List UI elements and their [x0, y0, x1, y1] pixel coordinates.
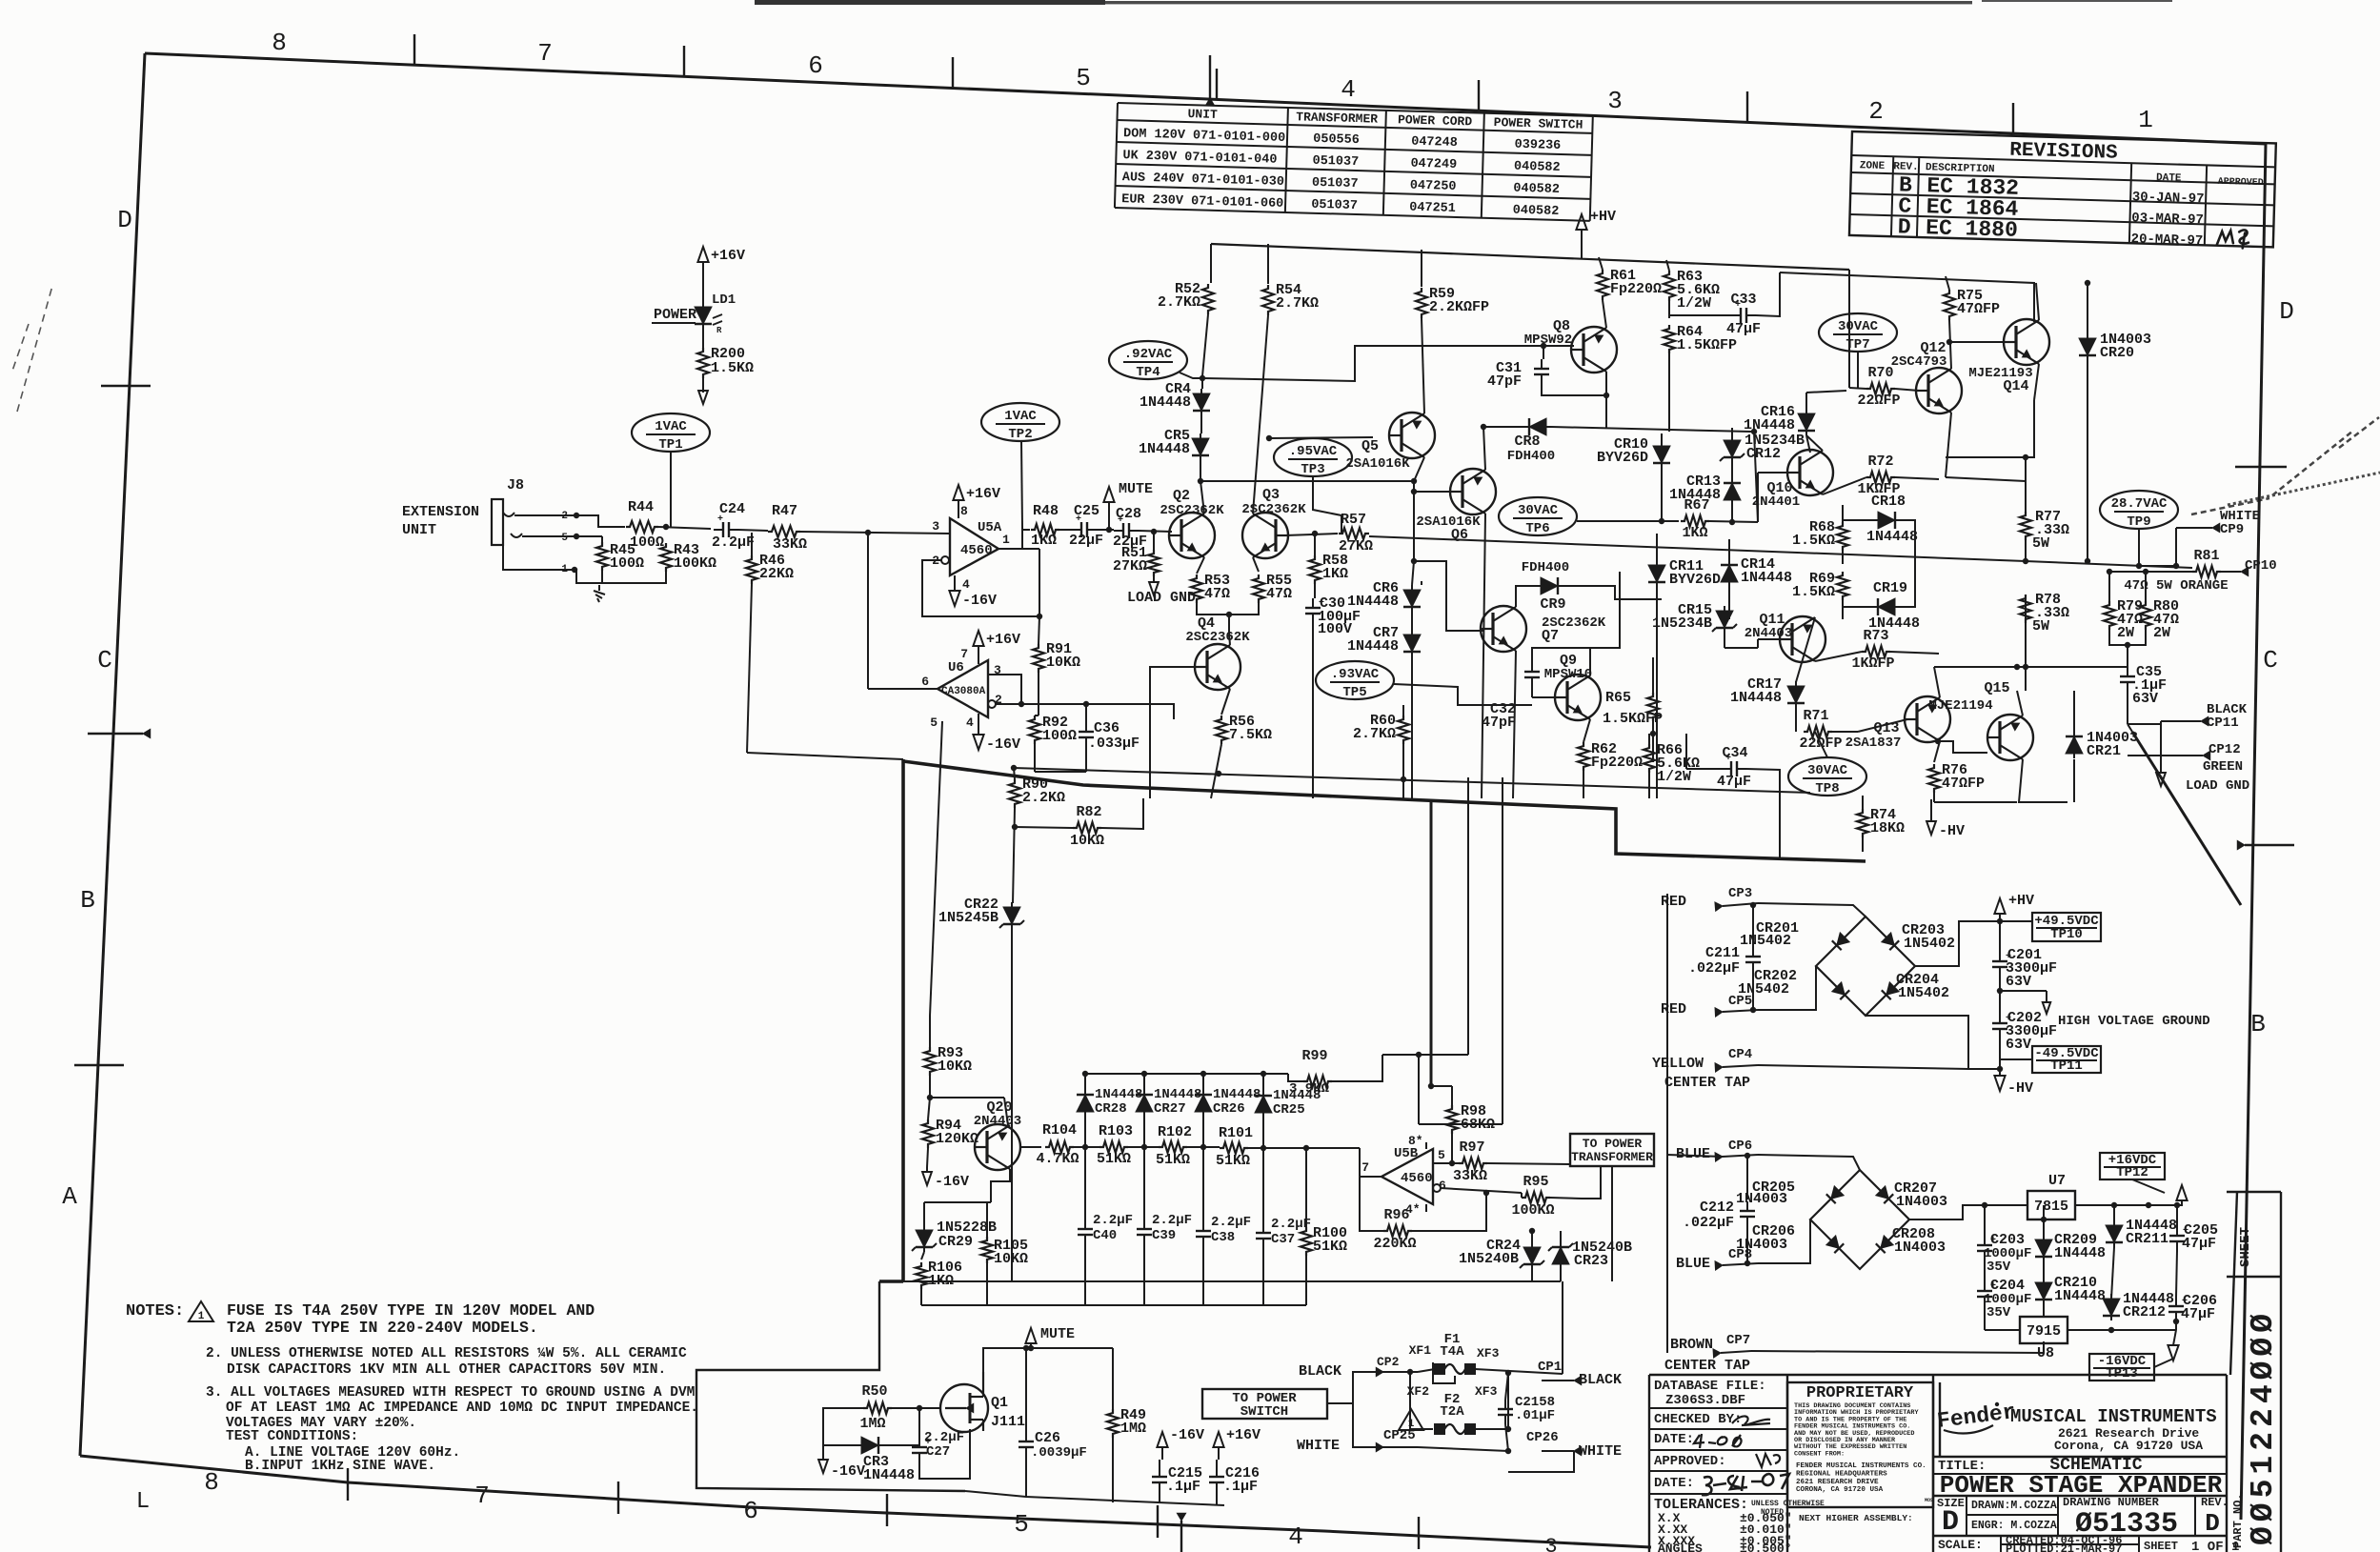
wire	[1011, 929, 1013, 1281]
transistor Q1 J111 JFET	[940, 1384, 988, 1432]
svg-text:C38: C38	[1211, 1230, 1235, 1245]
svg-text:1N5402: 1N5402	[1740, 933, 1791, 949]
wire	[1746, 769, 1780, 798]
wire	[1084, 1147, 1086, 1219]
svg-text:CR27: CR27	[1154, 1101, 1186, 1117]
svg-text:D: D	[1942, 1506, 1959, 1539]
svg-text:C37: C37	[1271, 1232, 1295, 1247]
svg-text:1N5240B: 1N5240B	[1459, 1251, 1519, 1267]
op-amp U5B 4560	[1382, 1149, 1433, 1204]
svg-text:2621 RESEARCH DRIVE: 2621 RESEARCH DRIVE	[1796, 1479, 1879, 1486]
svg-text:D: D	[1897, 214, 1911, 239]
svg-text:BYV26D: BYV26D	[1669, 572, 1721, 588]
svg-text:051037: 051037	[1312, 154, 1359, 170]
op-amp U6 CA3080A	[938, 660, 988, 717]
wire	[2127, 692, 2128, 724]
wire	[576, 535, 602, 537]
svg-text:1N4448: 1N4448	[1140, 394, 1191, 411]
svg-text:22KΩ: 22KΩ	[759, 566, 794, 582]
wire	[1796, 617, 1815, 682]
svg-text:220KΩ: 220KΩ	[1373, 1236, 1416, 1252]
power -16V CR3	[822, 1445, 824, 1460]
transistor Q11 2N4403	[1780, 616, 1825, 662]
svg-text:2N4401: 2N4401	[1752, 494, 1800, 510]
svg-text:22μF: 22μF	[1069, 533, 1103, 549]
svg-text:047250: 047250	[1410, 179, 1457, 194]
power +16V source arrow	[2176, 1185, 2187, 1200]
svg-text:D: D	[2205, 1509, 2220, 1538]
svg-text:WHITE: WHITE	[1579, 1443, 1622, 1460]
wire Q14 collector	[2036, 283, 2039, 320]
wire	[823, 1444, 857, 1446]
revisions table	[1849, 131, 2276, 251]
wire	[670, 452, 672, 527]
svg-text:BLACK: BLACK	[1299, 1363, 1341, 1380]
svg-text:Q15: Q15	[1984, 680, 2009, 696]
power -16V U5A	[954, 577, 956, 591]
wire	[1305, 1148, 1307, 1227]
svg-text:20-MAR-97: 20-MAR-97	[2130, 232, 2203, 249]
svg-text:2.2μF: 2.2μF	[712, 534, 755, 551]
power +HV top	[1581, 229, 1583, 259]
svg-text:1N4003: 1N4003	[1894, 1240, 1946, 1256]
wire	[1648, 773, 1650, 798]
svg-text:27KΩ: 27KΩ	[1113, 558, 1147, 574]
wire	[1542, 372, 1606, 395]
svg-text:4.7KΩ: 4.7KΩ	[1036, 1151, 1079, 1167]
svg-text:C28: C28	[1116, 506, 1141, 522]
wire	[1402, 705, 1404, 716]
capacitor C206	[2175, 1297, 2177, 1306]
svg-text:R47: R47	[772, 503, 797, 519]
sheet strip	[2226, 1375, 2228, 1552]
svg-text:2SC2362K: 2SC2362K	[1185, 630, 1250, 645]
svg-text:30-JAN-97: 30-JAN-97	[2132, 190, 2205, 207]
svg-text:040582: 040582	[1514, 160, 1561, 175]
diode CR13 1N4448	[1724, 483, 1741, 500]
diode CR209 1N4448	[2035, 1240, 2052, 1257]
svg-text:2SA1837: 2SA1837	[1846, 736, 1902, 751]
wire	[1984, 1260, 1986, 1281]
wire R54 to Q3 collector	[1253, 315, 1268, 514]
svg-text:47μF: 47μF	[1726, 321, 1761, 337]
wire	[1752, 972, 1754, 1010]
right border tick marks	[2235, 466, 2287, 468]
svg-text:OF AT LEAST 1MΩ AC IMPEDANCE A: OF AT LEAST 1MΩ AC IMPEDANCE AND 10MΩ DC…	[226, 1401, 698, 1416]
svg-text:1.5KΩFP: 1.5KΩFP	[1677, 337, 1737, 353]
svg-text:C40: C40	[1093, 1228, 1117, 1243]
svg-text:47μF: 47μF	[2182, 1236, 2216, 1252]
svg-text:CP3: CP3	[1728, 886, 1752, 901]
wire U5A output	[998, 548, 1039, 550]
resistor R50	[863, 1402, 892, 1414]
wire	[1933, 793, 1935, 802]
wire Q15 emitter	[2019, 759, 2067, 802]
svg-text:MUSICAL INSTRUMENTS: MUSICAL INSTRUMENTS	[2010, 1406, 2217, 1427]
transistor Q6 2SA1016K	[1450, 469, 1496, 514]
svg-text:1N5245B: 1N5245B	[938, 910, 998, 926]
resistor R77	[2020, 512, 2031, 540]
svg-text:C211: C211	[1705, 945, 1740, 961]
resistor R91	[1033, 644, 1044, 673]
wire	[1305, 1256, 1307, 1305]
svg-text:PART NO.: PART NO.	[2231, 1493, 2245, 1548]
wire PSU left vertical	[1666, 894, 1668, 1353]
svg-text:XF3: XF3	[1475, 1384, 1498, 1399]
resistor R98	[1446, 1105, 1458, 1134]
wire bridge2 +out	[1909, 1205, 2027, 1219]
zener diode CR24 1N5240B	[1523, 1247, 1541, 1264]
svg-text:03-MAR-97: 03-MAR-97	[2131, 211, 2204, 228]
svg-text:2.2μF: 2.2μF	[1271, 1217, 1311, 1232]
svg-text:1KΩ: 1KΩ	[1682, 525, 1707, 541]
resistor R43	[660, 543, 672, 572]
wire	[2000, 920, 2032, 922]
zener diode CR29 1N5228B	[916, 1230, 933, 1247]
svg-text:TRANSFORMER: TRANSFORMER	[1296, 110, 1378, 126]
wire	[2128, 724, 2132, 732]
resistor R96	[1383, 1225, 1412, 1237]
wire	[1758, 966, 1816, 1010]
wire	[1599, 257, 1603, 270]
resistor R105	[981, 1237, 993, 1263]
power -16V Q20	[926, 1167, 928, 1172]
wire	[1751, 1341, 2044, 1353]
svg-text:2SA1016K: 2SA1016K	[1345, 456, 1410, 472]
wire	[1228, 615, 1230, 634]
wire Q8 emitter down	[1605, 395, 1607, 429]
wire	[576, 515, 625, 527]
wire	[2109, 572, 2192, 601]
wire	[2073, 691, 2075, 732]
wire	[1097, 529, 1114, 531]
wire thin 30VAC rail	[1014, 768, 1810, 793]
wire	[1656, 534, 1658, 565]
svg-text:CR28: CR28	[1095, 1101, 1127, 1117]
wire	[1475, 1373, 1508, 1429]
svg-text:MJE21194: MJE21194	[1928, 698, 1992, 714]
wire	[1353, 1403, 1383, 1447]
svg-text:C36: C36	[1094, 720, 1119, 736]
svg-text:.1μF: .1μF	[1166, 1479, 1200, 1495]
svg-text:J8: J8	[507, 477, 524, 494]
wire	[2000, 1058, 2032, 1060]
svg-text:POWER CORD: POWER CORD	[1398, 112, 1473, 129]
warning triangle 1	[1399, 1409, 1423, 1430]
svg-text:MPSW10: MPSW10	[1544, 667, 1592, 682]
resistor R81	[2192, 566, 2221, 577]
svg-text:10KΩ: 10KΩ	[1070, 833, 1104, 849]
svg-text:-16V: -16V	[986, 736, 1020, 753]
wire	[1754, 432, 1758, 522]
svg-text:POWER: POWER	[654, 307, 696, 323]
U5A inverting input circle	[941, 556, 949, 564]
resistor R82	[1073, 822, 1101, 834]
svg-text:DATE:: DATE:	[1654, 1432, 1694, 1447]
diode CR211 1N4448	[2106, 1225, 2123, 1242]
wire right box top	[1780, 272, 2034, 322]
scan scratch top-right	[2191, 417, 2379, 514]
wire	[1015, 827, 1073, 828]
wire	[1699, 314, 1731, 316]
svg-text:1N4448: 1N4448	[1154, 1087, 1201, 1102]
wire	[1648, 734, 1650, 744]
wire	[2145, 572, 2147, 601]
zener diode CR22 1N5245B	[1003, 907, 1020, 924]
wire	[1666, 260, 1669, 271]
capacitor C28	[1114, 530, 1123, 532]
svg-text:CP10: CP10	[2245, 558, 2277, 574]
resistor R73	[1862, 646, 1890, 657]
wire	[1582, 1166, 1601, 1199]
capacitor C211	[1752, 947, 1754, 957]
svg-text:1.5KΩ: 1.5KΩ	[1792, 584, 1835, 600]
wire	[1560, 1231, 1562, 1242]
scan artifact top bar	[755, 0, 1105, 5]
svg-text:33KΩ: 33KΩ	[1453, 1168, 1487, 1184]
wire	[1668, 353, 1670, 432]
svg-text:R72: R72	[1867, 454, 1893, 470]
capacitor C2158	[1504, 1400, 1506, 1409]
wire	[1021, 527, 1023, 549]
left border arrow	[88, 733, 143, 735]
svg-text:R97: R97	[1459, 1139, 1484, 1156]
resistor R92	[1029, 716, 1040, 744]
svg-text:R65: R65	[1605, 690, 1631, 706]
svg-text:CR19: CR19	[1873, 580, 1907, 596]
svg-text:R70: R70	[1867, 365, 1893, 381]
wire	[1999, 1038, 2001, 1069]
wire	[2173, 563, 2179, 569]
svg-text:2.2μF: 2.2μF	[1211, 1215, 1251, 1230]
resistor R106	[916, 1262, 927, 1289]
svg-text:4: 4	[1288, 1522, 1303, 1551]
svg-text:51KΩ: 51KΩ	[1313, 1239, 1347, 1255]
wire	[1758, 903, 1866, 917]
title row	[1933, 1456, 2227, 1458]
svg-text:CONSENT FROM:: CONSENT FROM:	[1794, 1450, 1845, 1458]
svg-text:YELLOW: YELLOW	[1652, 1056, 1704, 1072]
resistor R58	[1309, 555, 1321, 584]
resistor R71	[1804, 726, 1832, 737]
svg-text:47ΩFP: 47ΩFP	[1942, 776, 1985, 792]
wire Q5 base line	[1269, 437, 1373, 438]
wire	[1487, 1163, 1570, 1164]
fuse F2 symbol	[1435, 1424, 1444, 1434]
svg-text:4560: 4560	[960, 543, 993, 558]
wire	[1021, 441, 1022, 527]
resistor R60	[1398, 716, 1409, 744]
svg-text:C212: C212	[1700, 1199, 1734, 1216]
svg-text:047251: 047251	[1409, 201, 1456, 216]
resistor R95	[1522, 1192, 1550, 1203]
diode CR212 1N4448	[2103, 1299, 2120, 1316]
diode CR21 1N4003	[2066, 736, 2083, 754]
resistor R55	[1253, 557, 1259, 572]
svg-text:2SC4793: 2SC4793	[1891, 354, 1947, 370]
power -16V U6	[978, 721, 979, 735]
wire	[1267, 244, 1269, 284]
svg-text:047248: 047248	[1411, 135, 1458, 151]
svg-text:CR8: CR8	[1514, 433, 1540, 450]
svg-text:22ΩFP: 22ΩFP	[1857, 393, 1900, 409]
wire	[1562, 1281, 1563, 1374]
svg-text:C25: C25	[1074, 503, 1099, 519]
test point TP6	[1499, 497, 1577, 535]
svg-text:T2A 250V TYPE IN 220-240V MODE: T2A 250V TYPE IN 220-240V MODELS.	[227, 1319, 538, 1337]
wire	[1746, 1224, 1748, 1263]
wire	[1746, 1156, 1748, 1199]
svg-text:1N4448: 1N4448	[1347, 594, 1399, 610]
wire	[1531, 1269, 1533, 1281]
svg-text:2.2KΩFP: 2.2KΩFP	[1429, 299, 1489, 315]
wire	[1262, 1074, 1264, 1096]
svg-text:CP4: CP4	[1728, 1047, 1752, 1062]
svg-text:T4A: T4A	[1440, 1344, 1464, 1360]
wire	[1611, 1166, 1613, 1281]
svg-text:UNIT: UNIT	[1187, 107, 1218, 122]
resistor R79	[2104, 601, 2115, 630]
wire	[1758, 1016, 1968, 1069]
chassis ground	[598, 585, 600, 591]
svg-text:TP9: TP9	[2127, 514, 2150, 530]
svg-text:35V: 35V	[1987, 1260, 2011, 1275]
svg-text:-HV: -HV	[1939, 823, 1965, 839]
svg-text:REGIONAL HEADQUARTERS: REGIONAL HEADQUARTERS	[1796, 1470, 1887, 1478]
wire	[1758, 1155, 1860, 1170]
svg-text:APPROVED: APPROVED	[2218, 177, 2264, 189]
wire	[1728, 539, 1730, 565]
wire	[2111, 1247, 2114, 1299]
wire	[1039, 616, 1039, 644]
svg-text:7815: 7815	[2034, 1199, 2068, 1215]
wire	[2025, 457, 2027, 512]
wire TP6 to R67	[1577, 520, 1679, 522]
scan scratch left	[11, 286, 52, 412]
resistor R63	[1664, 271, 1675, 301]
svg-text:+HV: +HV	[2008, 893, 2034, 909]
svg-text:+16V: +16V	[986, 632, 1020, 648]
wire emitter join	[1197, 603, 1259, 615]
svg-text:051037: 051037	[1311, 198, 1358, 213]
wire	[2000, 990, 2047, 992]
svg-text:U8: U8	[2037, 1345, 2054, 1361]
svg-text:2.7KΩ: 2.7KΩ	[1353, 726, 1396, 742]
wire	[747, 584, 752, 753]
resistor R66	[1644, 744, 1655, 773]
svg-text:1VAC: 1VAC	[1004, 409, 1037, 424]
svg-text:7: 7	[1361, 1160, 1369, 1175]
wire	[1862, 796, 1864, 809]
svg-text:+16V: +16V	[1226, 1427, 1261, 1443]
svg-text:CP2: CP2	[1377, 1355, 1400, 1369]
wire U6 pin3 loop	[988, 675, 1021, 704]
wire	[1143, 1074, 1145, 1095]
wire	[1505, 1373, 1508, 1400]
wire	[1984, 1205, 1986, 1236]
svg-text:HIGH VOLTAGE GROUND: HIGH VOLTAGE GROUND	[2058, 1014, 2210, 1029]
wire Q12/Q14 join	[1946, 400, 2034, 457]
diode CR14 1N4448	[1721, 565, 1738, 582]
svg-text:R104: R104	[1042, 1122, 1077, 1139]
zener diode CR12 1N5234B	[1724, 440, 1741, 457]
svg-text:APPROVED:: APPROVED:	[1654, 1454, 1726, 1469]
svg-text:BLUE: BLUE	[1676, 1256, 1710, 1272]
wire	[1531, 1231, 1533, 1242]
svg-text:CORONA, CA 91720 USA: CORONA, CA 91720 USA	[1796, 1486, 1884, 1494]
capacitor C38	[1202, 1221, 1204, 1231]
svg-text:51KΩ: 51KΩ	[1156, 1152, 1190, 1168]
wire	[1516, 586, 1536, 607]
svg-text:CR9: CR9	[1540, 596, 1565, 613]
wire	[2128, 721, 2161, 724]
svg-text:U7: U7	[2048, 1173, 2066, 1189]
power -HV PSU	[1999, 1069, 2001, 1077]
wire	[928, 1098, 930, 1119]
resistor R65	[1647, 693, 1659, 721]
svg-text:CP7: CP7	[1726, 1333, 1750, 1348]
svg-text:039236: 039236	[1514, 138, 1561, 153]
wire	[2173, 1330, 2176, 1345]
wire	[924, 1201, 991, 1203]
wire	[1202, 314, 1208, 376]
svg-text:NOTES:: NOTES:	[126, 1302, 184, 1320]
wire	[658, 527, 711, 529]
svg-text:J111: J111	[991, 1414, 1025, 1430]
svg-text:2.2KΩ: 2.2KΩ	[1022, 790, 1065, 806]
resistor R56	[1216, 716, 1227, 744]
svg-text:XF3: XF3	[1477, 1346, 1500, 1361]
test point TP5	[1316, 661, 1394, 699]
svg-text:2SA1016K: 2SA1016K	[1416, 514, 1481, 530]
transistor Q20 2N4403	[975, 1124, 1020, 1170]
capacitor C32	[1531, 662, 1533, 672]
wire	[1843, 519, 1873, 521]
svg-text:1KΩFP: 1KΩFP	[1851, 655, 1894, 672]
svg-text:POWER SWITCH: POWER SWITCH	[1494, 115, 1583, 132]
svg-text:2.7KΩ: 2.7KΩ	[1158, 294, 1200, 311]
svg-text:100V: 100V	[1318, 621, 1352, 637]
wire	[1327, 1372, 1383, 1403]
svg-text:SCALE:: SCALE:	[1938, 1538, 1983, 1552]
wire	[702, 324, 704, 348]
resistor R44	[626, 521, 658, 533]
wire	[2075, 1199, 2182, 1205]
svg-text:PROPRIETARY: PROPRIETARY	[1806, 1384, 1914, 1402]
svg-text:U5B: U5B	[1394, 1146, 1419, 1161]
svg-text:D: D	[117, 206, 132, 234]
svg-text:CP1: CP1	[1538, 1360, 1562, 1375]
wire	[1832, 731, 1858, 733]
wire	[1652, 657, 1654, 693]
wire	[1999, 921, 2001, 952]
diode CR4	[1201, 378, 1203, 389]
label CP12 GREEN	[2128, 755, 2203, 756]
svg-text:Corona, CA 91720 USA: Corona, CA 91720 USA	[2054, 1439, 2203, 1453]
svg-text:30VAC: 30VAC	[1838, 319, 1879, 334]
wire	[2127, 645, 2128, 667]
svg-text:3. ALL VOLTAGES MEASURED WITH: 3. ALL VOLTAGES MEASURED WITH RESPECT TO…	[206, 1385, 695, 1401]
svg-text:TP5: TP5	[1342, 685, 1366, 700]
svg-text:1N4448: 1N4448	[863, 1467, 915, 1483]
wire PSU block frame	[1667, 1155, 1723, 1157]
svg-text:120KΩ: 120KΩ	[936, 1131, 978, 1147]
resistor R64	[1664, 325, 1675, 353]
svg-text:2SC2362K: 2SC2362K	[1241, 502, 1306, 517]
svg-text:R44: R44	[628, 499, 654, 515]
svg-text:TP8: TP8	[1815, 781, 1839, 796]
svg-text:-16V: -16V	[962, 593, 997, 609]
